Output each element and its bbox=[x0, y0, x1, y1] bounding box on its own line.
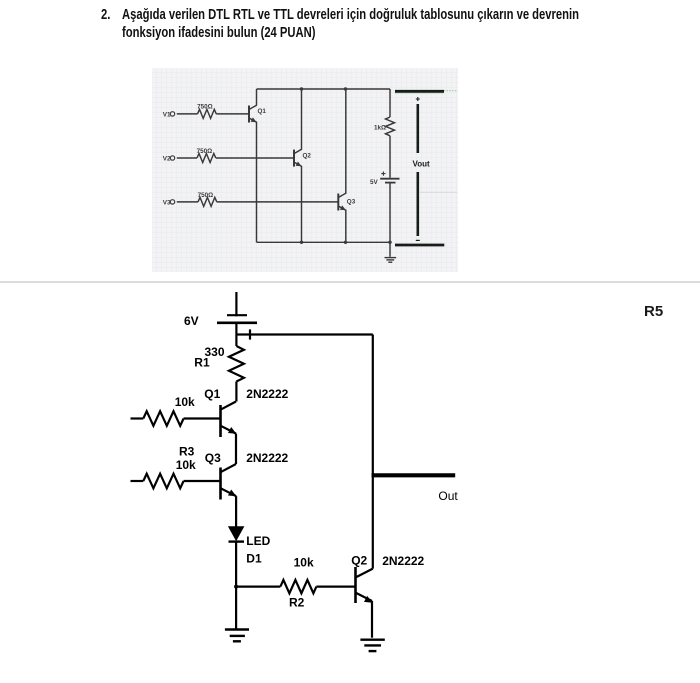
svg-text:2N2222: 2N2222 bbox=[246, 387, 288, 401]
svg-text:Q2: Q2 bbox=[351, 554, 367, 568]
svg-text:5V: 5V bbox=[370, 179, 379, 186]
svg-text:1kΩ: 1kΩ bbox=[374, 125, 386, 132]
svg-text:Q3: Q3 bbox=[205, 451, 221, 465]
svg-text:V2: V2 bbox=[163, 155, 171, 162]
svg-text:V3: V3 bbox=[163, 199, 171, 206]
svg-text:Q2: Q2 bbox=[303, 152, 312, 159]
svg-text:R2: R2 bbox=[289, 596, 305, 610]
svg-text:R3: R3 bbox=[179, 444, 195, 458]
svg-text:Q1: Q1 bbox=[204, 387, 220, 401]
svg-text:750Ω: 750Ω bbox=[198, 192, 214, 199]
svg-text:D1: D1 bbox=[246, 551, 262, 565]
svg-text:Q3: Q3 bbox=[347, 199, 356, 206]
svg-text:6V: 6V bbox=[184, 314, 199, 328]
svg-text:Q1: Q1 bbox=[258, 108, 267, 115]
svg-text:2N2222: 2N2222 bbox=[382, 554, 424, 568]
svg-text:10k: 10k bbox=[294, 555, 314, 569]
svg-text:R1: R1 bbox=[194, 356, 210, 370]
svg-text:Out: Out bbox=[438, 489, 458, 503]
svg-text:10k: 10k bbox=[176, 458, 196, 472]
svg-text:2N2222: 2N2222 bbox=[246, 451, 288, 465]
svg-text:10k: 10k bbox=[175, 395, 195, 409]
svg-text:750Ω: 750Ω bbox=[197, 104, 213, 111]
svg-text:750Ω: 750Ω bbox=[197, 148, 213, 155]
svg-text:LED: LED bbox=[246, 534, 270, 548]
svg-text:V1: V1 bbox=[163, 111, 171, 118]
svg-text:Vout: Vout bbox=[413, 160, 431, 169]
